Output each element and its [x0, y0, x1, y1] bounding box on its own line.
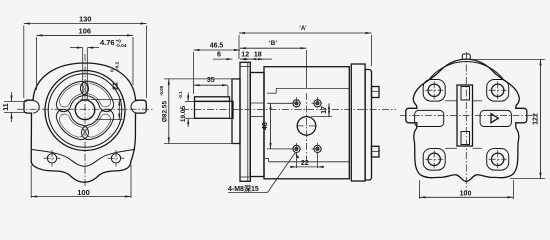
- svg-text:48: 48: [262, 122, 269, 130]
- svg-text:17: 17: [321, 106, 328, 114]
- svg-text:4.76: 4.76: [100, 38, 115, 47]
- svg-text:4-M8深15: 4-M8深15: [228, 184, 259, 193]
- svg-text:-0.1: -0.1: [178, 91, 183, 99]
- svg-text:100: 100: [77, 188, 90, 197]
- svg-text:‘B’: ‘B’: [269, 40, 277, 47]
- svg-text:-0.2: -0.2: [115, 61, 121, 70]
- svg-text:106: 106: [79, 26, 92, 35]
- svg-text:‘A’: ‘A’: [299, 25, 307, 32]
- svg-text:130: 130: [79, 15, 92, 24]
- svg-text:22: 22: [301, 160, 309, 167]
- svg-text:21: 21: [113, 82, 120, 90]
- svg-text:100: 100: [460, 191, 472, 198]
- svg-text:Ø82.55: Ø82.55: [162, 100, 169, 122]
- svg-text:11: 11: [3, 103, 10, 111]
- svg-text:46.5: 46.5: [210, 43, 224, 50]
- svg-text:35: 35: [207, 77, 215, 84]
- svg-text:-0.04: -0.04: [116, 43, 127, 49]
- svg-text:12: 12: [241, 51, 249, 58]
- svg-text:18: 18: [254, 51, 262, 58]
- svg-text:-0.05: -0.05: [159, 85, 164, 96]
- svg-text:122: 122: [532, 113, 539, 125]
- svg-text:6: 6: [217, 52, 221, 59]
- svg-text:19.05: 19.05: [180, 105, 187, 122]
